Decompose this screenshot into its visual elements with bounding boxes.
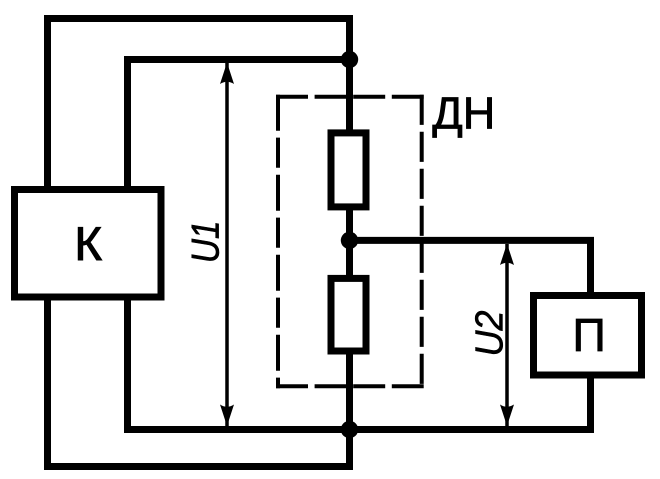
dimension arrow U2 shaft <box>505 244 509 426</box>
wire P box bottom to bottom wire <box>587 375 594 433</box>
label U1 <box>192 223 219 260</box>
label U2 <box>475 311 503 354</box>
junction node C (divider bottom) <box>341 421 358 438</box>
junction node A (divider top) <box>341 51 358 68</box>
arrowhead U2 top <box>500 244 514 266</box>
junction node B (divider mid tap) <box>341 232 358 249</box>
wire node B to P box top <box>350 240 591 299</box>
block P (device) <box>534 296 642 376</box>
resistor R2 <box>331 278 366 351</box>
dashed enclosure DN top side <box>276 95 424 99</box>
arrowhead U1 bottom <box>220 405 234 427</box>
wire inner loop top: K to node A <box>128 60 350 190</box>
arrowhead U2 bottom <box>500 405 514 427</box>
dimension arrow U1 shaft <box>225 63 229 426</box>
resistor R1 <box>331 133 366 207</box>
dashed enclosure DN bottom side <box>276 384 424 388</box>
block K (converter) <box>15 190 162 298</box>
label K <box>78 227 102 260</box>
wire inner loop bottom: K to node C and right to P branch <box>128 297 595 430</box>
wire divider vertical segment: R2 to bottom wire <box>346 351 353 467</box>
dashed enclosure DN left side <box>276 95 280 389</box>
wire divider vertical segment: top wire to R1 <box>346 15 353 133</box>
label P <box>576 319 602 351</box>
label DN (voltage divider designation) <box>433 98 492 138</box>
dashed enclosure DN right side <box>420 95 424 389</box>
wire outer loop top: K output to divider top <box>48 19 350 190</box>
arrowhead U1 top <box>220 63 234 85</box>
wire divider vertical segment: R1 to R2 <box>346 207 353 282</box>
wire outer loop bottom: K to divider bottom <box>48 297 350 467</box>
